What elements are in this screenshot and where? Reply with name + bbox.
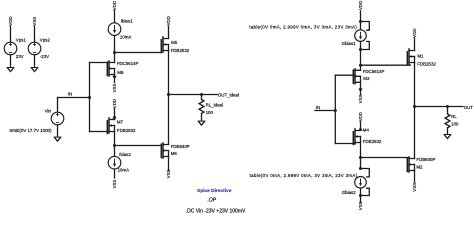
- arrow on M7 drain: [112, 114, 116, 118]
- svg-text:FDC5614P: FDC5614P: [117, 61, 139, 66]
- wire Gbias2 bottom to VSS flag: [360, 188, 362, 202]
- node Gbias2 bottom bracket junction: [359, 194, 362, 197]
- wire IN to M8 gate: [90, 62, 108, 64]
- wire IN to M7 gate: [90, 131, 108, 133]
- wire M7 source to node B: [114, 132, 116, 146]
- wire Gbias1 control bracket top: [361, 22, 370, 31]
- node IN2 junction: [334, 109, 337, 112]
- svg-text:IN: IN: [68, 92, 72, 97]
- svg-text:M5: M5: [171, 40, 178, 45]
- svg-text:VSS: VSS: [112, 180, 117, 189]
- wire M8 drain pin: [114, 75, 116, 77]
- wire M3 drain stem to VSS flag: [360, 92, 362, 94]
- svg-text:RL_ideal: RL_ideal: [206, 103, 223, 108]
- svg-text:10mA: 10mA: [118, 168, 130, 173]
- svg-text:M3: M3: [363, 76, 370, 81]
- svg-text:VDD: VDD: [8, 16, 13, 25]
- wire M8 drain stem to VSS flag: [114, 80, 116, 83]
- svg-text:100: 100: [451, 122, 459, 127]
- svg-text:FDB2532: FDB2532: [117, 128, 136, 133]
- svg-text:FDB840P: FDB840P: [171, 144, 190, 149]
- svg-text:M2: M2: [416, 164, 423, 169]
- svg-text:M4: M4: [363, 127, 370, 132]
- svg-text:M7: M7: [117, 120, 124, 125]
- svg-text:100: 100: [206, 110, 214, 115]
- svg-text:RL: RL: [451, 114, 457, 119]
- wire VDD flag to M1 drain: [414, 38, 416, 51]
- behavioral current source Gbias1: [355, 30, 367, 42]
- wire OUT stub to flag: [448, 106, 464, 108]
- wire M5 source to OUT_ideal node: [168, 51, 170, 95]
- svg-text:10mA: 10mA: [120, 34, 132, 39]
- svg-text:FDC5614P: FDC5614P: [363, 69, 385, 74]
- svg-text:M1: M1: [417, 53, 424, 58]
- wire RL_ideal top: [201, 95, 203, 100]
- wire IN2 vertical: [334, 75, 336, 143]
- wire M7 drain arrow to stub: [114, 118, 116, 119]
- wire node A2 to M3 source: [360, 65, 362, 70]
- wire Gbias2 control bracket bottom: [361, 188, 370, 195]
- wire IN net vertical: [89, 63, 91, 132]
- svg-text:VSS: VSS: [358, 95, 363, 104]
- wire node B to M6 gate: [115, 145, 162, 147]
- transistor M4 FDB2532 nmos: [353, 129, 360, 145]
- wire M6 source to OUT_ideal node: [168, 95, 170, 145]
- wire OUT_ideal row: [169, 94, 202, 96]
- transistor M5 FDB2532 nmos: [161, 37, 168, 53]
- svg-text:Ibias2: Ibias2: [119, 152, 131, 157]
- svg-text:FDB2532: FDB2532: [363, 139, 382, 144]
- wire VDD flag to M5 drain: [168, 26, 170, 39]
- node OUT junction at RL: [446, 105, 449, 108]
- ground at Vin: [54, 137, 60, 141]
- svg-text:table(0V 0mA, 2.999V 0mA, 3V 3: table(0V 0mA, 2.999V 0mA, 3V 3mA, 23V 3m…: [250, 173, 358, 178]
- svg-text:M6: M6: [171, 151, 178, 156]
- transistor M7 FDB2532 nmos: [107, 118, 114, 134]
- wire node B2 to Gbias2: [360, 158, 362, 169]
- wire Ibias1 to node A: [114, 35, 116, 52]
- current source Ibias1: [108, 23, 121, 36]
- node Gbias2 top bracket junction: [359, 167, 362, 170]
- svg-text:VDD: VDD: [112, 99, 117, 108]
- node OUT_ideal junction at RL_ideal: [200, 93, 203, 96]
- svg-text:Spice Directive: Spice Directive: [197, 188, 232, 194]
- svg-text:OUT_ideal: OUT_ideal: [218, 92, 239, 97]
- ground at Vps1: [7, 68, 13, 72]
- node A2 junction: [359, 64, 362, 67]
- svg-text:Ibias1: Ibias1: [121, 18, 133, 23]
- transistor M1 FDB2532 nmos: [407, 49, 414, 65]
- svg-text:-23V: -23V: [40, 54, 49, 59]
- node Gbias1 bottom bracket junction: [359, 48, 362, 51]
- wire VDD flag to Gbias1: [360, 11, 362, 30]
- svg-text:OUT: OUT: [464, 105, 474, 110]
- node Gbias1 top bracket junction: [359, 20, 362, 23]
- svg-text:FDB2532: FDB2532: [171, 48, 190, 53]
- resistor RL_ideal: [199, 100, 204, 114]
- transistor M3 FDC5614P pmos: [353, 69, 360, 84]
- wire M3 drain pin: [360, 82, 362, 88]
- svg-text:VDD: VDD: [412, 28, 417, 37]
- node OUT junction at M1 M2: [413, 105, 416, 108]
- node B junction: [113, 144, 116, 147]
- svg-text:VSS: VSS: [32, 17, 37, 26]
- svg-text:VDD: VDD: [166, 16, 171, 25]
- wire IN net horizontal: [58, 97, 90, 99]
- wire Gbias1 to node A2: [360, 41, 362, 65]
- wire node A2 to M1 gate: [361, 64, 411, 66]
- svg-text:M8: M8: [117, 70, 124, 75]
- transistor M2 FDB840P pmos: [407, 157, 414, 172]
- wire OUT row: [415, 106, 448, 108]
- wire VDD flag to M4 drain: [360, 122, 362, 127]
- wire OUT_ideal stub to flag: [202, 94, 218, 96]
- svg-text:Gbias1: Gbias1: [342, 41, 356, 46]
- wire M2 drain to VSS flag: [414, 171, 416, 183]
- node OUT_ideal junction at M5 M6: [167, 93, 170, 96]
- wire Vin bottom to ground: [57, 125, 59, 137]
- wire Vps2 bottom to ground: [34, 55, 36, 68]
- wire VDD flag to Ibias1: [114, 11, 116, 23]
- svg-text:IN: IN: [316, 105, 320, 110]
- wire Vps1 top to VDD flag: [10, 26, 12, 42]
- voltage source Vin: [51, 112, 64, 125]
- node B2 junction: [359, 156, 362, 159]
- svg-text:FDB2532: FDB2532: [417, 62, 436, 67]
- wire RL bottom to ground: [447, 128, 449, 135]
- voltage source Vps1: [4, 42, 17, 55]
- svg-text:VDD: VDD: [358, 1, 363, 10]
- svg-text:VDD: VDD: [358, 112, 363, 121]
- wire VDD flag to M7 drain: [114, 108, 116, 114]
- transistor M8 FDC5614P pmos: [107, 61, 114, 76]
- wire node B2 to M2 gate: [361, 157, 408, 159]
- wire node B to Ibias2: [114, 146, 116, 157]
- svg-text:table(0V 0mA, 2.999V 0mA, 3V 3: table(0V 0mA, 2.999V 0mA, 3V 3mA, 23V 3m…: [249, 24, 357, 29]
- wire M4 source to node B2: [360, 143, 362, 158]
- svg-text:VDD: VDD: [112, 1, 117, 10]
- svg-text:23V: 23V: [16, 54, 24, 59]
- svg-text:Vps1: Vps1: [16, 37, 27, 42]
- voltage source Vps2: [28, 42, 41, 55]
- behavioral current source Gbias2: [355, 177, 367, 189]
- transistor M6 FDB840P pmos: [161, 143, 168, 158]
- wire IN2 to M4 gate: [335, 143, 354, 145]
- ground at RL_ideal: [198, 121, 204, 125]
- wire Gbias1 control bracket bottom: [361, 42, 370, 50]
- wire Gbias2 control bracket top: [361, 169, 370, 177]
- svg-text:VSS: VSS: [112, 84, 117, 93]
- wire M2 source to OUT node: [414, 107, 416, 159]
- wire RL top: [447, 107, 449, 114]
- node IN junction: [88, 96, 91, 99]
- wire IN2 to M3 gate: [335, 74, 354, 76]
- svg-text:Gbias2: Gbias2: [342, 190, 356, 195]
- svg-text:VSS: VSS: [166, 169, 171, 178]
- wire Vin top up: [57, 98, 59, 113]
- arrow on M8 drain: [112, 76, 116, 80]
- ground at RL: [444, 135, 450, 139]
- svg-text:Vin: Vin: [45, 108, 52, 113]
- arrow on M3 drain: [358, 88, 362, 92]
- arrow on M4 drain: [358, 127, 362, 131]
- wire M1 source to OUT node: [414, 63, 416, 107]
- ground at Vps2: [31, 68, 37, 72]
- resistor RL: [445, 114, 450, 128]
- svg-text:VSS: VSS: [412, 183, 417, 192]
- current source Ibias2: [108, 156, 121, 169]
- svg-text:Vps2: Vps2: [40, 37, 51, 42]
- node A junction: [113, 51, 116, 54]
- wire node A to M5 gate: [115, 52, 162, 54]
- svg-text:.DC Vin -23V +23V 100mV: .DC Vin -23V +23V 100mV: [186, 209, 246, 215]
- wire Vps1 bottom to ground: [10, 55, 12, 68]
- svg-text:SINE(0V 17.7V 1000): SINE(0V 17.7V 1000): [9, 128, 52, 133]
- wire IN flag stub right: [315, 110, 335, 112]
- svg-text:FDB840P: FDB840P: [416, 157, 435, 162]
- wire node A to M8 source: [114, 53, 116, 63]
- svg-text:.OP: .OP: [208, 197, 217, 203]
- wire RL_ideal bottom to ground: [201, 113, 203, 121]
- wire Ibias2 bottom to VSS flag: [114, 169, 116, 178]
- wire Vps2 top to VSS flag: [34, 26, 36, 42]
- wire M6 drain to VSS flag: [168, 157, 170, 171]
- svg-text:VSS: VSS: [358, 201, 363, 210]
